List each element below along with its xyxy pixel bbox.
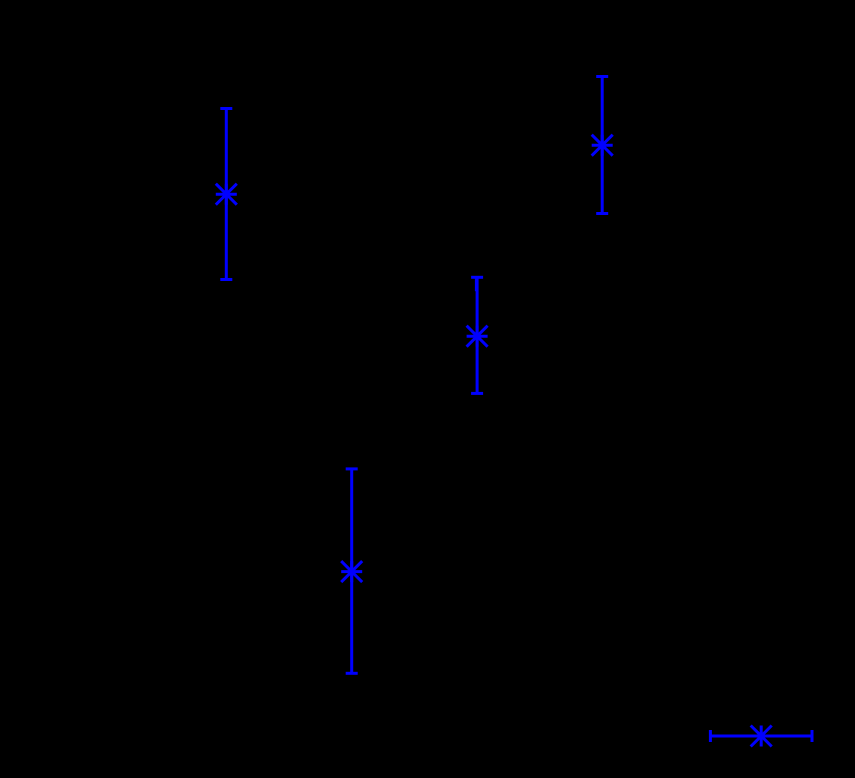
marker 5 (asterisk at 761.2,736) — [751, 726, 772, 747]
error bar 5 (horizontal, y=736) — [710, 730, 812, 742]
error bar 4 (vertical, x=351.7) — [346, 469, 358, 673]
marker 1 (asterisk at 226.3,194.2) — [216, 184, 237, 205]
error bar 2 (vertical, x=602.2) — [596, 77, 608, 214]
marker 4 (asterisk at 351.7,571.6) — [341, 561, 362, 582]
marker 3 (asterisk at 477.1,336.2) — [467, 326, 488, 347]
marker 2 (asterisk at 602.2,145.2) — [592, 135, 613, 156]
error bar 3 (vertical, x=477.1) — [471, 277, 483, 393]
error bar 1 (vertical, x=226.3) — [220, 109, 232, 280]
